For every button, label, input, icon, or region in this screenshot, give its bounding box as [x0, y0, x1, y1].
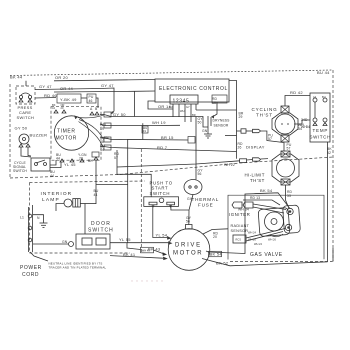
cycling thermostat TH1: [252, 106, 299, 142]
svg-text:CORD: CORD: [22, 272, 39, 278]
wire door switch to power cord: [33, 243, 68, 245]
svg-text:BK: BK: [88, 159, 93, 163]
svg-text:YL 55: YL 55: [119, 237, 131, 242]
svg-text:26: 26: [238, 146, 242, 150]
wire WH 26: [246, 232, 283, 247]
thermal fuse F1: [184, 117, 219, 225]
console border dashed jog at push-start: [140, 149, 142, 252]
svg-text:SWITCH: SWITCH: [88, 227, 114, 233]
console dashed border bottom: [10, 157, 333, 178]
interior lamp L1: [41, 191, 81, 207]
svg-text:RCS: RCS: [236, 238, 242, 242]
svg-text:SENSOR: SENSOR: [231, 229, 249, 233]
svg-text:SWITCH: SWITCH: [13, 169, 27, 173]
wire EC pin stubs: [169, 104, 196, 122]
svg-text:BK 44: BK 44: [10, 74, 23, 79]
svg-text:44: 44: [94, 193, 98, 197]
node BU 44 label: [317, 70, 330, 75]
console dashed border left: [9, 84, 11, 179]
ground power cord: [20, 215, 48, 228]
press care switch PS1: [16, 86, 35, 120]
wire GY 50 run: [100, 115, 208, 128]
timer terminal right WH 19: [100, 123, 111, 131]
gas valve enclosure box: [228, 195, 333, 261]
wire RD 19 to dryness sensor: [212, 97, 218, 116]
wire lamp to door switch: [84, 204, 86, 235]
svg-text:START: START: [152, 186, 169, 191]
svg-text:BU: BU: [322, 95, 326, 99]
svg-text:WH 19: WH 19: [152, 120, 166, 125]
timer terminal bottom YL 45: [50, 153, 87, 168]
svg-text:YL 54: YL 54: [156, 233, 168, 238]
svg-text:OR 44: OR 44: [60, 86, 74, 91]
svg-text:4A: 4A: [313, 95, 316, 99]
svg-text:TEMP: TEMP: [313, 128, 329, 133]
svg-text:ELECTRONIC CONTROL: ELECTRONIC CONTROL: [159, 86, 228, 92]
wire YL 54 to motor: [153, 206, 172, 239]
svg-text:WH 34: WH 34: [238, 208, 249, 212]
svg-text:GY 50: GY 50: [15, 126, 28, 131]
svg-text:OR 20: OR 20: [55, 75, 69, 80]
note neutral line text: [49, 262, 107, 270]
radiant sensor: [231, 224, 250, 243]
cabinet dashed border left: [29, 183, 31, 254]
svg-text:SWITCH: SWITCH: [150, 191, 171, 196]
svg-text:YL 45: YL 45: [64, 162, 76, 167]
ground GN under dryness sensor: [202, 127, 212, 138]
svg-text:WH 43: WH 43: [142, 249, 150, 253]
wire GY 47 from press care switch: [35, 83, 114, 114]
console dashed border right: [332, 70, 334, 261]
wire BK 54 motor to gas valve: [206, 188, 290, 257]
timer terminal right Y-GN 28: [100, 136, 111, 144]
svg-text:46: 46: [89, 99, 93, 103]
svg-text:BU 44: BU 44: [317, 70, 330, 75]
timer terminal bottom BK: [88, 152, 99, 163]
wire OR 20: [26, 75, 155, 86]
timer terminal right BU 44: [100, 144, 111, 152]
cabinet dashed border top: [30, 181, 146, 183]
wire RD 20 motor right: [203, 229, 228, 239]
wire WH 34 cycling: [294, 120, 310, 131]
hi-limit thermostat TH2: [245, 151, 300, 185]
svg-text:WH 22: WH 22: [224, 163, 235, 167]
wire OR 44 drop to timer: [54, 91, 155, 117]
svg-text:DRIVE: DRIVE: [175, 243, 202, 249]
svg-text:29: 29: [239, 115, 243, 119]
wire PU 57 cycling to hi-limit: [284, 143, 292, 152]
svg-text:12345: 12345: [173, 98, 190, 104]
svg-text:WH 26: WH 26: [268, 238, 276, 242]
wire vertical run V2: [142, 123, 144, 139]
svg-text:L1: L1: [20, 216, 24, 220]
svg-text:57: 57: [287, 147, 291, 151]
connector Y-BK 49: [57, 94, 81, 103]
connector PU 46: [87, 94, 96, 103]
wire press care to timer B: [81, 98, 98, 108]
svg-text:Y-BK 49: Y-BK 49: [60, 97, 77, 102]
buzzer BZ1: [15, 126, 48, 158]
wire RD 42: [285, 90, 310, 106]
wire OR 14: [148, 101, 173, 109]
igniter E1: [229, 202, 286, 217]
svg-text:LAMP: LAMP: [42, 197, 60, 203]
svg-text:RADIANT: RADIANT: [231, 224, 250, 228]
push to start switch S4: [144, 181, 179, 208]
svg-text:RD 7: RD 7: [157, 145, 168, 150]
svg-text:BR 15: BR 15: [161, 135, 174, 140]
wire timer bottom down to lamp: [96, 160, 128, 204]
wire RD 57 vertical to push start: [114, 150, 151, 197]
svg-text:19: 19: [100, 127, 104, 131]
svg-text:WH 24: WH 24: [254, 242, 262, 246]
svg-text:HI-LIMIT: HI-LIMIT: [245, 173, 265, 178]
cabinet dashed border bottom: [30, 252, 131, 254]
svg-text:GN: GN: [202, 129, 208, 133]
svg-text:POWER: POWER: [20, 265, 42, 271]
svg-text:GY: GY: [186, 105, 190, 109]
svg-text:34: 34: [306, 125, 310, 129]
svg-text:TRACER AND TIN PLATED TERMINAL: TRACER AND TIN PLATED TERMINAL: [49, 266, 107, 270]
gas valve assembly: [258, 205, 300, 237]
svg-text:MOTOR: MOTOR: [56, 136, 78, 142]
wire BK 52 motor bottom: [202, 259, 328, 266]
svg-text:SWITCH: SWITCH: [310, 134, 331, 139]
svg-text:19: 19: [212, 101, 216, 105]
wire YL 55 label: [119, 237, 131, 242]
svg-text:SWITCH: SWITCH: [17, 115, 35, 120]
svg-text:RD 42: RD 42: [290, 90, 303, 95]
svg-text:RD 13: RD 13: [250, 196, 260, 200]
wire RD 46: [35, 93, 57, 98]
svg-text:50: 50: [198, 121, 202, 125]
svg-text:DOOR: DOOR: [91, 221, 111, 227]
node BK 44 label: [10, 74, 23, 79]
wire OR 44: [60, 86, 74, 91]
svg-text:WH: WH: [180, 109, 184, 113]
wire BR 29 EC to display: [196, 81, 244, 132]
wire WH 43: [141, 247, 168, 256]
display connector WH 22: [224, 158, 268, 167]
svg-text:GAS VALVE: GAS VALVE: [250, 252, 283, 258]
display module: [225, 129, 284, 159]
svg-text:TH'ST: TH'ST: [250, 178, 265, 183]
dryness sensor: [208, 115, 230, 128]
svg-text:20: 20: [213, 235, 217, 239]
door switch S5: [62, 221, 114, 249]
svg-text:BUZZER: BUZZER: [30, 133, 48, 138]
wire RD 53 hi-limit to gas valve: [286, 185, 293, 209]
wire top supply line BK44/BU44: [10, 70, 333, 76]
wire BU 44 lamp: [56, 189, 99, 211]
svg-text:IGNITER: IGNITER: [229, 212, 250, 217]
svg-text:TH'ST: TH'ST: [256, 113, 273, 118]
svg-text:SENSOR: SENSOR: [214, 124, 229, 128]
svg-text:CYCLING: CYCLING: [252, 107, 278, 112]
svg-text:28: 28: [79, 157, 83, 161]
wire BU 44 cycle switch: [50, 160, 56, 178]
svg-text:56: 56: [198, 172, 202, 176]
electronic control U1: [155, 79, 229, 104]
svg-text:53: 53: [287, 194, 291, 198]
svg-text:GY 47: GY 47: [101, 83, 114, 88]
svg-text:GY 47: GY 47: [39, 84, 52, 89]
svg-text:44: 44: [50, 174, 54, 178]
svg-text:GN: GN: [62, 240, 68, 244]
wire RD 7 long run to display: [100, 145, 237, 152]
svg-text:34D: 34D: [301, 118, 308, 122]
svg-text:THERMAL: THERMAL: [192, 197, 220, 202]
wire YL 55 door to motor: [110, 241, 173, 245]
timer motor M1: [54, 115, 104, 150]
timer terminal top A B: [90, 107, 99, 115]
svg-text:MOTOR: MOTOR: [173, 251, 203, 257]
junction box BR15 end: [188, 137, 195, 144]
svg-text:TIMER: TIMER: [57, 129, 76, 135]
wire BK 52 temp switch down: [327, 142, 332, 262]
svg-text:BK 54: BK 54: [260, 188, 273, 193]
wire RD 13: [243, 196, 280, 205]
cycle signal switch S2: [13, 158, 50, 173]
wire BK 43: [127, 205, 189, 252]
wire BK 41 bottom run: [110, 252, 168, 260]
faint dots artifact: [131, 280, 162, 281]
temp switch S3: [310, 93, 331, 142]
wire WH 19 run: [100, 120, 180, 126]
timer assembly dashed box: [51, 107, 101, 161]
drive motor M2: [168, 216, 210, 270]
wire WH 19 display branch: [142, 126, 148, 133]
svg-text:WH 24: WH 24: [248, 231, 256, 235]
wire vertical run V1: [127, 139, 129, 243]
svg-text:N: N: [37, 216, 40, 220]
wire BR 15 run: [100, 135, 188, 140]
svg-text:44: 44: [56, 157, 60, 161]
wire WH 22 run: [117, 161, 240, 167]
svg-text:DRYNESS: DRYNESS: [213, 119, 231, 123]
timer terminal top left: [52, 103, 66, 113]
svg-text:OR 14: OR 14: [158, 104, 172, 109]
node 34D RD labels: [301, 118, 310, 129]
timer terminal right GY 50: [104, 112, 126, 117]
svg-text:DISPLAY: DISPLAY: [246, 145, 265, 150]
svg-text:57: 57: [268, 137, 272, 141]
svg-text:44: 44: [100, 148, 104, 152]
wire WH 24: [246, 229, 285, 239]
svg-text:FUSE: FUSE: [198, 202, 213, 207]
svg-text:INTERIOR: INTERIOR: [41, 191, 73, 197]
power cord: [20, 205, 48, 278]
svg-text:56: 56: [186, 220, 190, 224]
